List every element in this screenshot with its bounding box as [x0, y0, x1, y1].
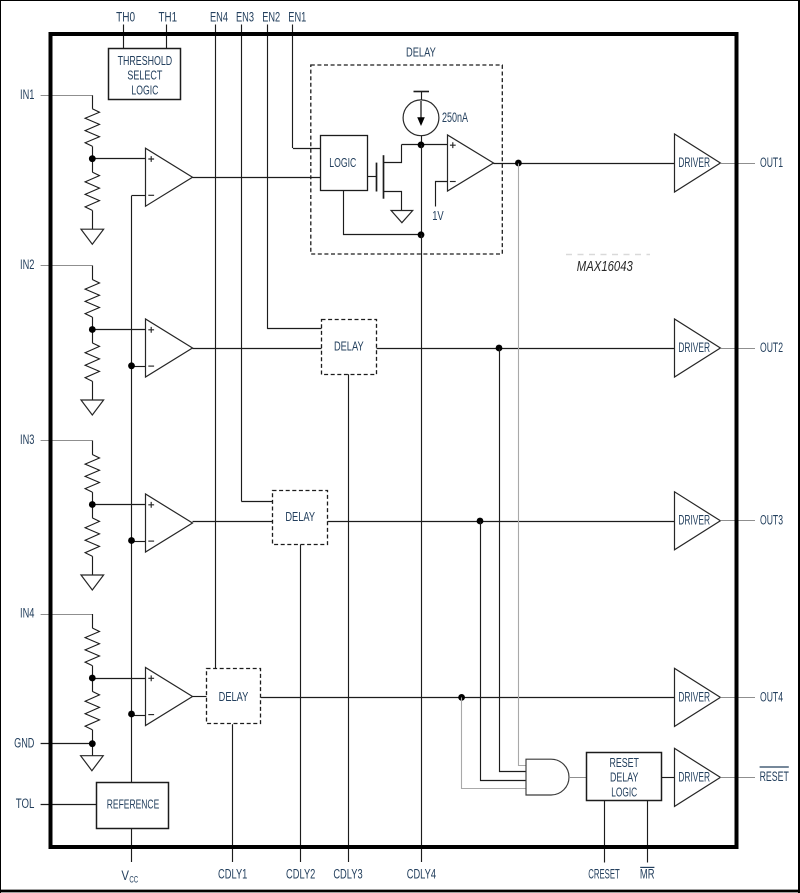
dashed box DELAY channel 1 [311, 65, 503, 254]
pin CRESET [604, 801, 606, 863]
svg-text:RESET: RESET [760, 769, 789, 784]
resistor divider bottom IN1 [92, 159, 94, 172]
svg-text:IN1: IN1 [20, 87, 34, 102]
node divider tap IN3 [92, 504, 145, 506]
svg-text:DELAY: DELAY [285, 510, 315, 524]
svg-text:REFERENCE: REFERENCE [107, 798, 160, 812]
wire CDLY4 rail [421, 235, 423, 862]
THRESHOLD SELECT LOGIC box [109, 49, 181, 100]
op-amp comparator 2 [146, 319, 193, 377]
pin TOL [41, 804, 97, 806]
logic box bottom wire [344, 191, 422, 235]
pin IN1 [41, 95, 93, 97]
op-amp delay comparator U1 [448, 135, 494, 191]
svg-text:CDLY4: CDLY4 [407, 867, 437, 882]
resistor divider bottom IN2 [92, 330, 94, 343]
wire delay3 to CDLY2 [300, 545, 302, 863]
node out3 [477, 518, 484, 525]
pin GND [41, 743, 93, 745]
op-amp comparator 3 [146, 494, 193, 552]
ground symbol mosfet [391, 211, 413, 223]
svg-text:DELAY: DELAY [610, 771, 639, 785]
wire OUT3 pin stub [720, 520, 755, 522]
wire 1V to minus input [436, 182, 448, 207]
resistor divider top IN3 [92, 441, 94, 455]
wire out4 to reset gate [462, 698, 527, 789]
svg-text:SELECT: SELECT [127, 69, 162, 83]
pin IN4 [41, 614, 93, 616]
node ref-comp2 [128, 362, 135, 369]
dashed box DELAY3 [273, 491, 328, 545]
wire RESET pin stub [720, 777, 755, 779]
svg-text:CDLY3: CDLY3 [333, 867, 362, 882]
ground symbol ch1 [81, 229, 104, 244]
svg-text:TH0: TH0 [116, 10, 135, 25]
wire minus input comparator 1 [132, 195, 146, 197]
svg-text:OUT1: OUT1 [760, 155, 783, 170]
wire vcc rail [131, 828, 133, 862]
node divider tap IN1 [92, 158, 145, 160]
transistor M1 [367, 176, 376, 178]
wire delay2 out [376, 348, 674, 350]
svg-text:LOGIC: LOGIC [329, 156, 356, 170]
svg-text:DELAY: DELAY [219, 690, 249, 704]
wire ch4 to gnd [92, 730, 94, 756]
REFERENCE box [97, 783, 169, 829]
dashed box DELAY4 [207, 669, 261, 724]
pin MR [647, 801, 649, 863]
svg-text:250nA: 250nA [442, 110, 468, 126]
wire delay4 out [261, 697, 674, 699]
node out2 [496, 345, 503, 352]
wire OUT4 pin stub [720, 697, 755, 699]
wire comp2 out to DELAY2 [193, 348, 322, 350]
wire minus input comparator 4 [132, 715, 146, 717]
ground symbol ch4 [81, 756, 104, 771]
driver OUT1 [675, 134, 721, 192]
wire current source to node [421, 136, 423, 145]
svg-text:1V: 1V [432, 208, 444, 223]
driver OUT4 [675, 668, 721, 726]
svg-text:THRESHOLD: THRESHOLD [118, 54, 173, 68]
current source supply bar [414, 91, 430, 93]
node ref-comp4 [128, 711, 135, 718]
svg-text:OUT4: OUT4 [760, 689, 783, 704]
pin EN4 [215, 25, 217, 670]
wire EN2 elbow to DELAY2 [267, 328, 321, 330]
wire comp3 out to DELAY3 [193, 521, 273, 523]
node out1 [515, 160, 522, 167]
svg-text:TOL: TOL [16, 796, 35, 811]
svg-text:LOGIC: LOGIC [131, 83, 158, 97]
pin EN3 [241, 25, 243, 502]
wire out1 to reset gate [519, 164, 527, 766]
svg-text:CRESET: CRESET [588, 867, 620, 882]
svg-text:CDLY2: CDLY2 [286, 867, 315, 882]
svg-text:IN3: IN3 [20, 432, 34, 447]
wire node down through mosfet region [421, 145, 423, 235]
node out4 [458, 694, 465, 701]
wire out3 to reset gate [481, 522, 527, 781]
svg-text:EN2: EN2 [262, 10, 280, 25]
resistor divider bottom IN3 [92, 505, 94, 518]
svg-text:V: V [121, 868, 129, 883]
wire EN1 elbow to LOGIC [293, 148, 320, 150]
resistor divider top IN2 [92, 266, 94, 280]
current source I1 250nA [403, 100, 439, 136]
RESET DELAY LOGIC box [587, 753, 662, 801]
ground symbol ch3 [81, 575, 104, 590]
svg-text:CDLY1: CDLY1 [218, 867, 247, 882]
node ref-comp3 [128, 537, 135, 544]
wire gate to reset delay logic [569, 777, 587, 779]
node delay1 top [402, 144, 447, 146]
driver OUT3 [675, 492, 721, 550]
wire delay4 to CDLY1 [232, 724, 234, 862]
svg-text:TH1: TH1 [159, 10, 178, 25]
svg-text:EN1: EN1 [288, 10, 306, 25]
svg-text:DELAY: DELAY [406, 44, 436, 59]
node delay1 bottom [418, 231, 425, 238]
svg-text:IN4: IN4 [20, 606, 35, 621]
dashed box DELAY2 [322, 320, 377, 375]
wire reset logic to driver5 [662, 777, 675, 779]
pin IN3 [41, 440, 93, 442]
wire delay3 out [328, 521, 675, 523]
wire supply to current source [421, 91, 423, 100]
wire out2 to reset gate [500, 349, 527, 772]
svg-text:DRIVER: DRIVER [678, 155, 710, 170]
node divider tap IN2 [92, 329, 145, 331]
node divider tap IN4 [92, 678, 145, 680]
wire minus input comparator 2 [132, 366, 146, 368]
svg-text:DRIVER: DRIVER [678, 689, 710, 704]
driver OUT2 [675, 319, 721, 377]
svg-text:EN4: EN4 [210, 10, 228, 25]
svg-text:DRIVER: DRIVER [678, 340, 710, 355]
svg-text:GND: GND [14, 735, 35, 750]
wire minus input comparator 3 [132, 541, 146, 543]
svg-text:LOGIC: LOGIC [611, 785, 637, 799]
pin TH1 [166, 25, 168, 49]
wire OUT1 pin stub [720, 163, 755, 165]
svg-text:MAX16043: MAX16043 [577, 259, 633, 275]
svg-text:DRIVER: DRIVER [678, 769, 710, 784]
svg-text:IN2: IN2 [20, 257, 34, 272]
ground symbol ch2 [81, 400, 104, 415]
pin EN2 [267, 25, 269, 329]
node GND junction [89, 740, 96, 747]
wire delay comp out to driver1 [494, 163, 675, 165]
wire OUT2 pin stub [720, 348, 755, 350]
resistor divider top IN4 [92, 614, 94, 628]
outer block border [51, 34, 737, 847]
pin EN1 [292, 25, 294, 149]
op-amp comparator 4 [146, 668, 193, 726]
wire delay2 to CDLY3 [348, 374, 350, 862]
svg-text:OUT2: OUT2 [760, 340, 783, 355]
wire EN3 elbow to DELAY3 [241, 501, 272, 503]
and gate G1 [526, 759, 569, 795]
svg-text:CC: CC [129, 874, 138, 885]
wire comp4 out to DELAY4 [193, 696, 207, 698]
svg-text:MR: MR [640, 867, 655, 882]
resistor divider top IN1 [92, 95, 94, 108]
svg-text:DRIVER: DRIVER [678, 513, 710, 528]
wire reference rail [131, 196, 133, 782]
wire comp1 out to LOGIC [193, 177, 321, 179]
driver RESET [675, 748, 721, 806]
op-amp comparator 1 [146, 148, 193, 206]
svg-text:RESET: RESET [609, 756, 639, 770]
LOGIC box U2 [321, 136, 368, 191]
svg-text:DELAY: DELAY [334, 340, 364, 354]
pin IN2 [41, 265, 93, 267]
svg-text:EN3: EN3 [236, 10, 254, 25]
pin TH0 [123, 25, 125, 49]
resistor divider bottom IN4 [92, 678, 94, 691]
svg-text:OUT3: OUT3 [760, 513, 783, 528]
